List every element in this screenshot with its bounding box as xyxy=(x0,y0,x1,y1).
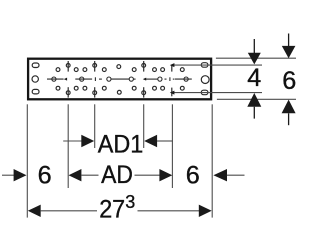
extension line plate left xyxy=(26,104,28,217)
dim 27 right arrowhead xyxy=(199,205,212,217)
svg-text:6: 6 xyxy=(186,162,200,190)
svg-text:AD1: AD1 xyxy=(98,131,144,159)
leader line top holes row xyxy=(171,64,262,66)
svg-text:3: 3 xyxy=(125,192,135,212)
right hole xyxy=(201,76,209,84)
left hole xyxy=(32,76,38,82)
dim 6 right bottom arrow stem xyxy=(288,113,290,125)
svg-text:4: 4 xyxy=(247,64,261,92)
middle row arrow mark right xyxy=(143,78,146,81)
dim AD left arrowhead xyxy=(69,169,82,181)
dim AD right tail xyxy=(135,174,160,176)
extension line hole col 2 xyxy=(94,104,96,148)
dim 4 top arrow stem xyxy=(253,39,255,53)
dim 6 right top arrowhead xyxy=(282,46,296,58)
dim 6 right top arrow stem xyxy=(288,34,290,47)
dim 27 right tail xyxy=(138,210,200,212)
dim AD1 left tail xyxy=(63,140,81,142)
top row small holes xyxy=(56,65,184,72)
extension line hole col 4 xyxy=(171,104,173,188)
dim 4 top arrowhead xyxy=(248,53,261,65)
dim AD right arrowhead xyxy=(159,169,172,181)
extension line hole col 1 xyxy=(67,104,69,188)
leader arrowhead top xyxy=(170,63,175,67)
dim 6 left tail xyxy=(2,174,14,176)
dim AD1 right arrowhead xyxy=(144,135,157,147)
right slot bottom xyxy=(201,90,208,95)
dim AD1 right tail xyxy=(157,140,173,142)
dim 6 left arrowhead xyxy=(14,169,27,181)
dim 6 far right arrowhead xyxy=(213,169,227,181)
leader line bottom holes row xyxy=(171,92,262,94)
dim 4 bottom arrow stem xyxy=(253,107,255,119)
right slot top xyxy=(201,63,208,67)
dim 27 left tail xyxy=(41,210,97,212)
svg-text:27: 27 xyxy=(99,196,125,224)
extension line plate right xyxy=(211,104,213,217)
svg-text:6: 6 xyxy=(38,162,52,190)
left slot top xyxy=(32,63,39,68)
extension line top edge (for 6) xyxy=(216,57,296,59)
middle row arrow mark left xyxy=(64,78,67,81)
middle slot row xyxy=(47,77,192,81)
bottom row small holes xyxy=(56,86,184,94)
dim 27 left arrowhead xyxy=(28,205,41,217)
dim 4 bottom arrowhead xyxy=(247,93,261,107)
extension line hole col 3 xyxy=(143,104,145,148)
mounting plate outline xyxy=(28,59,211,100)
dim AD left tail xyxy=(81,174,98,176)
dim 6 right bottom arrowhead xyxy=(282,100,296,114)
dim AD1 left arrowhead xyxy=(81,135,94,147)
svg-text:AD: AD xyxy=(101,161,133,189)
extension line bottom edge (for 6) xyxy=(217,98,296,100)
svg-text:6: 6 xyxy=(282,67,296,95)
leader arrowhead bottom xyxy=(170,91,175,95)
top crosshair holes xyxy=(66,61,172,72)
bottom crosshair holes xyxy=(66,87,172,97)
dim 6 far right tail xyxy=(227,174,245,176)
left slot bottom xyxy=(32,89,39,94)
